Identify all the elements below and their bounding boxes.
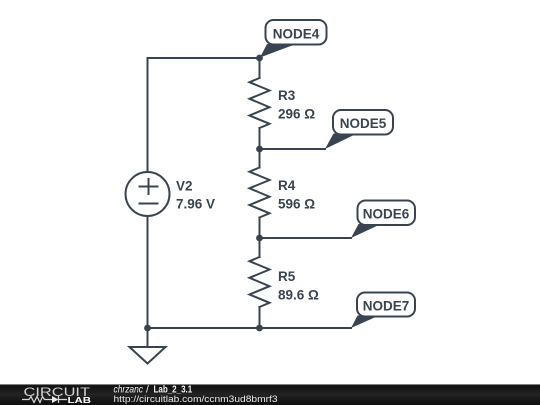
logo resistor squiggle xyxy=(22,397,52,403)
node NODE7 junction dot xyxy=(256,325,263,332)
node NODE4 callout xyxy=(260,20,327,58)
wire top horizontal xyxy=(148,57,260,59)
svg-text:7.96 V: 7.96 V xyxy=(176,197,215,212)
svg-text:296 Ω: 296 Ω xyxy=(278,107,315,122)
wire node4 to R3 xyxy=(259,58,261,78)
svg-text:NODE4: NODE4 xyxy=(273,27,320,42)
svg-text:NODE5: NODE5 xyxy=(340,116,387,131)
node NODE5 callout xyxy=(325,110,393,149)
V2 minus sign xyxy=(140,203,158,205)
svg-text:R5: R5 xyxy=(278,269,296,284)
svg-text:http://circuitlab.com/ccnm3ud8: http://circuitlab.com/ccnm3ud8bmrf3 xyxy=(114,394,278,404)
wire left vertical (top) xyxy=(147,58,149,172)
resistor R3 xyxy=(250,78,270,128)
wire node5 to NODE5 tail xyxy=(260,148,326,150)
node NODE4 junction dot xyxy=(256,55,263,62)
wire R5 to bottom xyxy=(259,307,261,328)
logo diode xyxy=(52,396,59,403)
resistor R4 xyxy=(250,168,270,218)
node NODE6 callout xyxy=(351,201,415,239)
voltage source V2 xyxy=(126,172,170,216)
wire R3 to node5 xyxy=(259,128,261,168)
svg-text:V2: V2 xyxy=(176,179,193,194)
ground symbol xyxy=(130,347,166,364)
resistor R5 xyxy=(250,257,270,307)
node NODE7 callout xyxy=(351,293,415,329)
svg-text:596 Ω: 596 Ω xyxy=(278,197,315,212)
ground stem wire xyxy=(147,328,149,347)
wire left vertical (bottom) xyxy=(147,216,149,328)
footer bar xyxy=(0,384,540,405)
svg-text:NODE6: NODE6 xyxy=(363,207,410,222)
node GND junction dot xyxy=(144,325,151,332)
svg-text:LAB: LAB xyxy=(68,396,92,405)
svg-text:R3: R3 xyxy=(278,88,296,103)
svg-text:89.6 Ω: 89.6 Ω xyxy=(278,288,319,303)
svg-text:R4: R4 xyxy=(278,178,296,193)
node NODE6 junction dot xyxy=(256,235,263,242)
wire R4 to node6 xyxy=(259,218,261,258)
V2 plus sign xyxy=(140,179,158,194)
node NODE5 junction dot xyxy=(256,146,263,153)
wire bottom horizontal xyxy=(148,327,352,329)
svg-text:NODE7: NODE7 xyxy=(363,299,410,314)
wire node6 to NODE6 tail xyxy=(260,237,352,239)
